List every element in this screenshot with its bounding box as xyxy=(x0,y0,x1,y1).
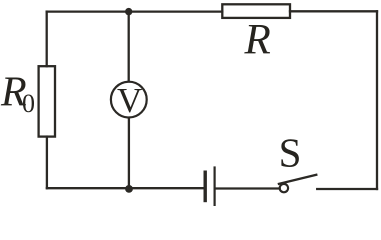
wire battery-to-switch segment xyxy=(216,187,280,189)
wire middle vertical lower xyxy=(128,118,130,189)
wire middle vertical upper xyxy=(128,12,130,82)
svg-text:V: V xyxy=(117,81,142,120)
voltmeter U1 circle xyxy=(111,82,147,118)
wire left vertical upper xyxy=(46,12,48,67)
svg-text:0: 0 xyxy=(22,89,35,118)
wire right vertical xyxy=(376,11,378,189)
svg-text:S: S xyxy=(279,129,302,175)
resistor R0 xyxy=(39,66,55,136)
wire bottom-right segment xyxy=(317,188,377,190)
wire left vertical lower xyxy=(46,137,48,189)
battery positive plate (long thin) xyxy=(214,168,216,206)
wire top-middle segment xyxy=(129,10,223,12)
wire bottom-left segment xyxy=(47,187,204,189)
resistor R xyxy=(222,4,290,18)
wire top-left segment xyxy=(47,10,129,12)
node junction dot bottom xyxy=(125,185,133,193)
wire top-right segment xyxy=(290,10,377,12)
switch S circle xyxy=(280,184,288,192)
svg-text:R: R xyxy=(244,16,271,63)
battery negative plate (short thick) xyxy=(203,172,206,200)
switch S lever xyxy=(279,175,316,184)
node junction dot top xyxy=(125,8,132,15)
